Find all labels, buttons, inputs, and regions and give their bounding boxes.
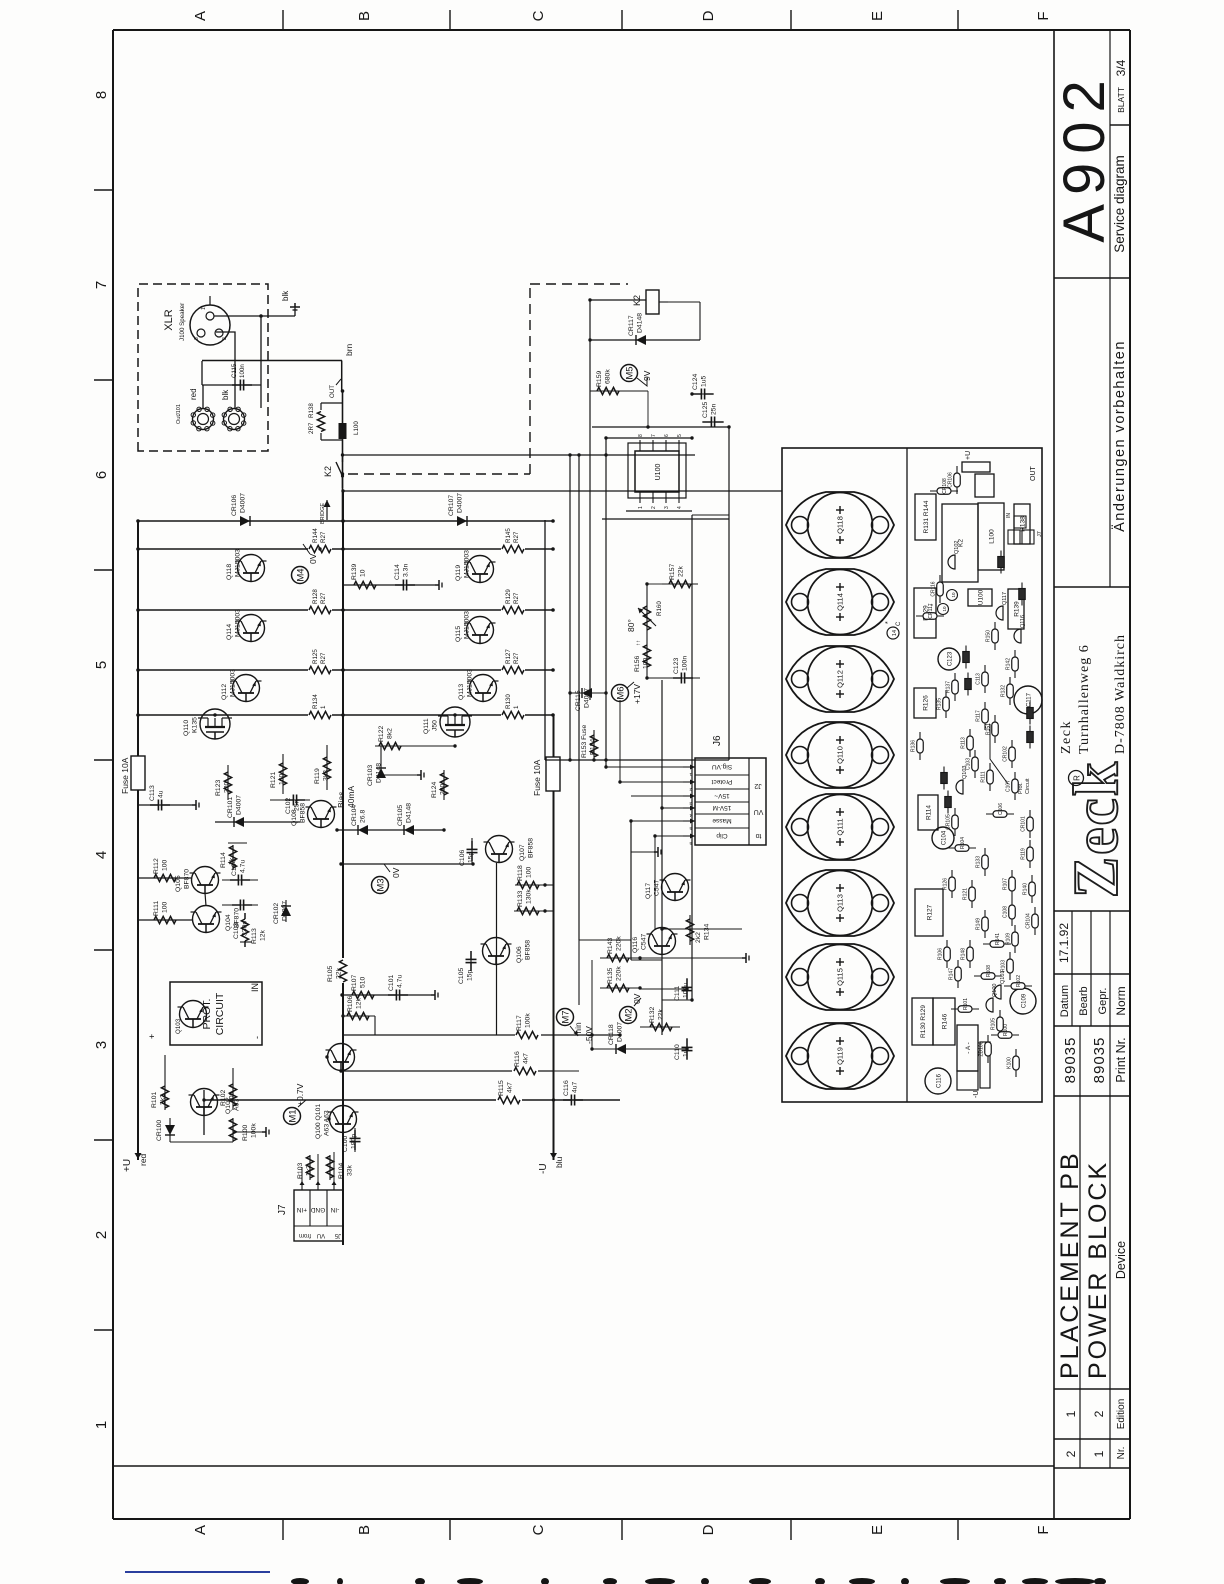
- resistor R124 220: [431, 770, 448, 800]
- pcb part R107: [1003, 870, 1016, 898]
- connector J7: [277, 1181, 343, 1241]
- svg-text:R159: R159: [596, 371, 603, 387]
- wire bias ladder b: [240, 941, 252, 943]
- pcb part C107: [1006, 772, 1019, 800]
- node -U blu: [538, 1152, 564, 1174]
- inductor L100: [339, 421, 361, 439]
- svg-text:Q116: Q116: [632, 937, 639, 953]
- svg-text:0V: 0V: [391, 867, 401, 878]
- pcb part R139: [1008, 589, 1024, 629]
- svg-text:C125: C125: [702, 402, 709, 418]
- pcb transistor Q111 TO-3: [786, 794, 894, 860]
- svg-text:Q113: Q113: [458, 684, 465, 700]
- wire mid output rail: [342, 490, 344, 1245]
- svg-text:Edition: Edition: [1116, 1399, 1127, 1430]
- svg-text:3k3: 3k3: [323, 770, 330, 781]
- svg-text:R106: R106: [938, 948, 944, 960]
- ground C113: [192, 800, 199, 810]
- svg-text:Gepr.: Gepr.: [1097, 988, 1109, 1015]
- pcb part K100: [1007, 1049, 1020, 1077]
- svg-text:red: red: [189, 388, 198, 400]
- svg-text:10: 10: [942, 606, 947, 612]
- svg-text:MJ15003: MJ15003: [235, 609, 242, 637]
- diode CR104 26.8: [351, 805, 368, 835]
- wire input left: [170, 1132, 262, 1142]
- svg-text:R100: R100: [242, 1125, 249, 1141]
- svg-text:R156: R156: [634, 656, 641, 672]
- svg-text:89035: 89035: [1091, 1037, 1108, 1084]
- resistor R112 100: [138, 858, 191, 882]
- svg-text:2: 2: [1064, 1450, 1078, 1457]
- svg-text:-IN: -IN: [330, 1206, 339, 1213]
- svg-text:C109: C109: [1022, 993, 1028, 1008]
- svg-text:R154: R154: [590, 739, 597, 755]
- resistor R125 R27: [308, 649, 332, 675]
- svg-text:R127: R127: [505, 649, 512, 664]
- svg-text:*: *: [885, 621, 892, 624]
- pcb connector J7: [1006, 513, 1043, 544]
- resistor R119 3k3: [314, 745, 331, 790]
- svg-text:CR105: CR105: [397, 805, 404, 826]
- pcb part R110: [998, 551, 1005, 574]
- node +U red: [122, 1152, 148, 1172]
- diode CR118 D4007: [592, 1022, 687, 1054]
- resistor R122 8k2: [375, 726, 455, 750]
- pcb part R138: [1014, 504, 1030, 544]
- svg-text:C547: C547: [641, 934, 648, 950]
- svg-text:R102: R102: [220, 1090, 227, 1106]
- resistor R154 fuse: [581, 725, 598, 760]
- svg-text:J5: J5: [334, 1232, 341, 1238]
- svg-text:6: 6: [689, 841, 692, 846]
- diode CR107 D4007: [448, 493, 467, 526]
- svg-text:5: 5: [93, 661, 110, 669]
- svg-text:R134: R134: [704, 924, 711, 940]
- pcb label Prot: [990, 724, 1031, 794]
- pcb fuse strip: [957, 1042, 990, 1090]
- svg-text:2R7: 2R7: [308, 422, 315, 434]
- svg-text:15p: 15p: [467, 969, 474, 981]
- svg-text:VU: VU: [754, 808, 764, 815]
- svg-text:R112: R112: [153, 858, 160, 874]
- ground input: [262, 1127, 269, 1137]
- svg-text:BF858: BF858: [528, 838, 535, 858]
- wire emitter row R125: [138, 669, 553, 671]
- svg-text:R130 R129: R130 R129: [920, 1005, 927, 1038]
- svg-text:BF870: BF870: [184, 869, 191, 889]
- svg-text:3: 3: [93, 1041, 110, 1049]
- transistor Q112 MJ15003: [221, 669, 262, 702]
- svg-text:Print Nr.: Print Nr.: [1114, 1037, 1128, 1082]
- pcb capacitor C117: [1014, 686, 1042, 714]
- pcb part R151: [986, 715, 999, 743]
- diode CR115 D4007: [570, 688, 606, 711]
- svg-text:R147: R147: [949, 968, 955, 980]
- svg-text:Q114: Q114: [226, 624, 233, 640]
- svg-text:R144: R144: [312, 528, 319, 543]
- pcb part R101: [951, 998, 979, 1012]
- capacitor C125 25n: [702, 402, 724, 428]
- pcb part R148: [961, 940, 974, 968]
- wire fb to rail: [545, 885, 554, 911]
- svg-text:PLACEMENT PB: PLACEMENT PB: [1056, 1150, 1084, 1379]
- svg-text:M7: M7: [560, 1010, 571, 1023]
- transistor Q102 A63: [189, 1089, 241, 1116]
- pcb transistor Q117: [996, 592, 1008, 620]
- svg-text:R27: R27: [513, 652, 520, 664]
- svg-text:100: 100: [526, 866, 533, 878]
- resistor R159 680k: [590, 369, 628, 395]
- svg-text:J6: J6: [712, 735, 723, 746]
- svg-text:R: R: [1073, 775, 1082, 781]
- pcb part U100: [968, 589, 992, 606]
- svg-text:1: 1: [638, 506, 644, 509]
- resistor R116 4k7: [512, 1051, 538, 1076]
- resistor R106 12k: [343, 996, 375, 1035]
- meter point M4 0V: [292, 544, 319, 584]
- pcb part L100: [978, 503, 1004, 570]
- svg-text:C106: C106: [998, 803, 1004, 815]
- svg-text:15V~: 15V~: [714, 792, 730, 799]
- svg-text:Q110: Q110: [183, 720, 190, 736]
- svg-text:R135: R135: [937, 698, 943, 710]
- resistor R134 2k2: [686, 915, 710, 945]
- svg-text:Q104: Q104: [225, 914, 232, 931]
- svg-text:C123: C123: [673, 658, 680, 674]
- svg-text:4k7: 4k7: [507, 1082, 514, 1093]
- svg-text:R27: R27: [320, 531, 327, 543]
- svg-text:IN: IN: [1006, 513, 1012, 518]
- wire input rail: [204, 1099, 620, 1101]
- wire J6 protect: [620, 700, 683, 782]
- svg-text:100: 100: [162, 901, 169, 913]
- pcb part C106: [945, 791, 952, 814]
- svg-text:Q110: Q110: [836, 746, 845, 764]
- resistor R105 22k: [327, 960, 347, 982]
- pcb part C108: [1003, 898, 1016, 926]
- svg-text:D4148: D4148: [376, 763, 383, 783]
- resistor R101 2k2: [151, 1086, 169, 1108]
- svg-text:Q115: Q115: [836, 968, 845, 986]
- svg-text:Datum: Datum: [1059, 985, 1071, 1017]
- svg-text:Q115: Q115: [455, 626, 462, 642]
- transistor Q119 MJ15003: [455, 550, 496, 583]
- svg-text:B: B: [356, 1525, 373, 1535]
- diode CR101 D4007: [215, 795, 300, 827]
- svg-text:R27: R27: [320, 592, 327, 604]
- wire bias ladder a: [228, 842, 247, 844]
- svg-text:MJ15003: MJ15003: [464, 550, 471, 578]
- svg-text:blk: blk: [221, 389, 230, 400]
- svg-text:Norm: Norm: [1114, 986, 1128, 1015]
- wire M7 node: [591, 960, 593, 1049]
- pcb transistor Q100: [986, 984, 998, 1012]
- resistor R128 R27: [308, 589, 332, 615]
- svg-text:R113: R113: [251, 928, 258, 944]
- svg-text:25n: 25n: [711, 403, 718, 415]
- pcb part R107: [1027, 726, 1034, 749]
- svg-text:C104: C104: [942, 830, 948, 845]
- svg-text:R151: R151: [986, 723, 992, 735]
- svg-text:C104: C104: [231, 860, 238, 876]
- pcb part R104: [965, 673, 972, 696]
- resistor R130 1: [501, 694, 525, 720]
- svg-text:BF858: BF858: [525, 940, 532, 960]
- svg-text:C111: C111: [674, 986, 681, 1001]
- svg-text:Q111: Q111: [423, 718, 430, 734]
- pcb part R111: [981, 763, 994, 791]
- svg-text:R141: R141: [995, 933, 1001, 945]
- pcb transistor Q119 TO-3: [786, 1023, 894, 1089]
- svg-text:15p: 15p: [468, 851, 475, 863]
- svg-text:6: 6: [93, 471, 110, 479]
- svg-text:R157: R157: [669, 564, 676, 580]
- svg-text:1u5: 1u5: [701, 375, 708, 387]
- wire clip column: [640, 989, 692, 1000]
- svg-text:8k2: 8k2: [387, 728, 394, 739]
- svg-text:CR101: CR101: [1021, 816, 1027, 832]
- transistor Q118 MJ15003: [226, 549, 267, 582]
- svg-text:R27: R27: [513, 531, 520, 543]
- pcb part R127: [915, 889, 943, 936]
- svg-text:POWER BLOCK: POWER BLOCK: [1084, 1160, 1112, 1379]
- pcb transistor Q118 TO-3: [786, 492, 894, 558]
- wire U100 right: [592, 427, 729, 438]
- svg-text:Q118: Q118: [836, 516, 845, 534]
- svg-text:K135: K135: [192, 717, 199, 733]
- svg-text:ZD100: ZD100: [979, 1041, 985, 1056]
- svg-text:MJ15003: MJ15003: [235, 549, 242, 577]
- svg-text:100: 100: [162, 859, 169, 871]
- pcb transistor Q102: [948, 541, 960, 569]
- svg-text:R130: R130: [505, 694, 512, 709]
- svg-text:C116: C116: [937, 1073, 943, 1088]
- svg-text:CR104: CR104: [1026, 913, 1032, 929]
- svg-text:BF858: BF858: [300, 803, 307, 823]
- pcb part C105: [941, 767, 948, 790]
- pcb part CR102: [1003, 740, 1016, 768]
- capacitor C104 4.7u: [222, 860, 258, 886]
- svg-text:C103: C103: [966, 758, 972, 770]
- pcb part R126: [943, 870, 956, 898]
- svg-text:C106: C106: [459, 850, 466, 866]
- svg-text:25n: 25n: [294, 799, 301, 811]
- svg-text:D4007: D4007: [457, 493, 464, 513]
- svg-text:Clip: Clip: [716, 832, 728, 839]
- svg-text:R123: R123: [215, 780, 222, 796]
- svg-text:Q112: Q112: [221, 684, 228, 700]
- resistor R107 510: [342, 975, 431, 999]
- pcb label -U: [973, 1091, 980, 1098]
- svg-text:12k: 12k: [260, 929, 267, 941]
- transistor Q108 BF858: [291, 801, 337, 828]
- transistor Q115 MJ15003: [455, 611, 496, 644]
- svg-text:1k2: 1k2: [306, 1165, 313, 1176]
- resistor R104 33k: [326, 1155, 353, 1180]
- svg-text:Fuse 10A: Fuse 10A: [532, 759, 542, 796]
- svg-text:R139: R139: [1014, 601, 1021, 617]
- svg-text:CR108: CR108: [942, 478, 948, 494]
- svg-text:4: 4: [93, 851, 110, 859]
- svg-text:130k: 130k: [526, 889, 533, 904]
- wire fuse drop: [545, 759, 729, 761]
- svg-text:A: A: [192, 1525, 209, 1535]
- wire mid band Y631: [630, 820, 632, 960]
- wire M5 row: [628, 391, 648, 427]
- pcb part pad: [962, 462, 990, 472]
- pcb part R130 R129: [912, 998, 933, 1045]
- ground snubber: [435, 580, 442, 590]
- pcb part CR117: [916, 603, 944, 619]
- pcb part C109: [1027, 702, 1034, 725]
- meter point M7 min -50V: [557, 1009, 595, 1045]
- svg-text:R106: R106: [347, 996, 354, 1012]
- svg-text:R118: R118: [517, 865, 524, 881]
- pcb note 14 C: [885, 621, 902, 639]
- wire mid band Y579: [578, 455, 580, 940]
- pcb part R131 R144: [915, 494, 936, 540]
- capacitor C124 1u5: [692, 374, 714, 400]
- svg-text:+U: +U: [965, 451, 972, 460]
- svg-text:100k: 100k: [525, 1013, 532, 1028]
- svg-text:5: 5: [677, 434, 683, 437]
- svg-text:R133: R133: [976, 856, 982, 868]
- wire pin2 to blk jack: [216, 332, 235, 408]
- connector J6 to VU: [683, 735, 766, 846]
- svg-text:D4007: D4007: [617, 1022, 624, 1042]
- wire out to pcb: [343, 490, 782, 492]
- capacitor C115 100n: [202, 363, 261, 390]
- pcb part CR108: [930, 478, 958, 494]
- svg-text:K2: K2: [323, 466, 333, 477]
- svg-text:CR105: CR105: [946, 814, 952, 830]
- svg-text:R105: R105: [327, 966, 334, 982]
- svg-text:R119: R119: [1021, 848, 1027, 860]
- meter point M3 0V: [372, 864, 402, 894]
- svg-text:R114: R114: [926, 805, 933, 820]
- svg-text:Q118: Q118: [226, 564, 233, 580]
- svg-text:R111: R111: [981, 771, 987, 782]
- wire emitter row R128: [138, 609, 553, 611]
- pcb part CR116: [931, 575, 944, 603]
- pcb part R109: [1006, 925, 1019, 953]
- svg-text:R160: R160: [656, 601, 663, 616]
- svg-text:R139: R139: [351, 564, 358, 580]
- pcb part R137: [946, 673, 959, 701]
- svg-text:XLR: XLR: [163, 309, 175, 330]
- svg-text:R102: R102: [1016, 975, 1022, 987]
- capacitor C123 100n: [647, 656, 700, 684]
- relay contact K2: [323, 454, 344, 488]
- wire U100 left: [602, 511, 729, 519]
- svg-text:510: 510: [360, 976, 367, 988]
- svg-text:CR117: CR117: [628, 315, 635, 336]
- resistor R121 160: [270, 754, 287, 794]
- svg-text:- A -: - A -: [965, 1042, 972, 1054]
- wire mid band Y662: [661, 680, 663, 1035]
- svg-text:Q103: Q103: [175, 1018, 182, 1034]
- svg-text:R114: R114: [220, 852, 227, 868]
- svg-text:3: 3: [664, 506, 670, 509]
- wire J7 to input: [302, 1152, 334, 1181]
- svg-text:+IN: +IN: [297, 1206, 308, 1213]
- wire -U rail: [553, 714, 555, 1160]
- svg-text:4k7: 4k7: [523, 1053, 530, 1064]
- svg-text:CR106: CR106: [948, 472, 954, 488]
- svg-text:C105: C105: [458, 968, 465, 984]
- pcb part R140: [1023, 875, 1036, 903]
- meter point M5 9V: [621, 365, 653, 387]
- ground blk: [281, 290, 300, 316]
- capacitor C101 4.7u: [388, 975, 408, 1001]
- svg-text:CIRCUIT: CIRCUIT: [214, 992, 226, 1035]
- resistor R133 130k: [514, 889, 545, 915]
- svg-text:Turnhallenweg 6: Turnhallenweg 6: [1077, 644, 1092, 754]
- svg-text:4u: 4u: [158, 790, 165, 798]
- svg-text:to: to: [755, 832, 761, 839]
- wire input top: [203, 1090, 205, 1135]
- svg-text:3: 3: [194, 337, 200, 340]
- pcb part CR101: [1021, 810, 1034, 838]
- svg-text:Bearb: Bearb: [1078, 986, 1090, 1015]
- svg-text:-U: -U: [973, 1091, 980, 1098]
- svg-text:R142: R142: [1006, 658, 1012, 670]
- svg-text:CR118: CR118: [608, 1024, 615, 1045]
- resistor R114 1k: [220, 845, 237, 870]
- resistor R111 100: [138, 901, 192, 924]
- svg-text:4: 4: [689, 813, 692, 818]
- svg-text:Bias: Bias: [336, 791, 346, 808]
- wire J6 masse: [631, 820, 683, 822]
- svg-text:180p: 180p: [351, 1134, 358, 1149]
- svg-text:5: 5: [689, 826, 692, 831]
- pcb part C103: [966, 750, 979, 778]
- banana jack blk: [221, 389, 246, 431]
- wire mid band Y570: [569, 455, 571, 760]
- wire brn corner: [341, 361, 343, 392]
- svg-text:CR116: CR116: [931, 581, 937, 596]
- svg-text:C102: C102: [285, 798, 292, 814]
- svg-text:U100: U100: [978, 589, 985, 605]
- svg-text:R138: R138: [308, 403, 315, 418]
- pcb part R135: [937, 690, 950, 718]
- protection circuit: [147, 982, 262, 1045]
- capacitor C113 4u: [138, 785, 192, 810]
- svg-text:blk: blk: [281, 290, 290, 301]
- wire amp mid drop: [579, 940, 662, 960]
- svg-text:C113: C113: [976, 673, 982, 685]
- pcb part R108: [974, 965, 1002, 979]
- svg-text:Q113: Q113: [836, 894, 845, 912]
- svg-text:220: 220: [440, 783, 447, 795]
- svg-text:R126: R126: [943, 878, 949, 890]
- wire clip link: [640, 929, 742, 989]
- svg-text:J101: J101: [176, 404, 182, 416]
- svg-text:CR106: CR106: [231, 495, 238, 516]
- svg-text:22k: 22k: [658, 1008, 665, 1020]
- svg-text:C103: C103: [233, 923, 240, 939]
- svg-text:IN: IN: [250, 983, 260, 992]
- wire J6 15VM: [662, 680, 683, 808]
- svg-text:C116: C116: [563, 1080, 570, 1096]
- svg-text:R129: R129: [505, 589, 512, 604]
- wire mid band Y692: [691, 515, 693, 1000]
- diode CR102 D4007: [273, 900, 291, 924]
- wire fb emitter run: [496, 863, 498, 1035]
- svg-text:4: 4: [677, 506, 683, 509]
- pcb part R103: [1001, 952, 1014, 980]
- svg-text:2: 2: [1092, 1410, 1106, 1417]
